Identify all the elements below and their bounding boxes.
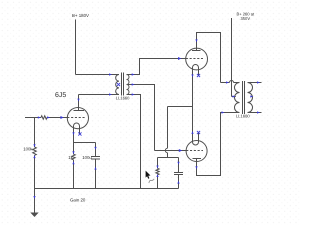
- svg-text:100u: 100u: [82, 155, 92, 160]
- wire bias R top lead: [157, 158, 159, 169]
- pin marker V2 grid arrow: [178, 57, 181, 60]
- pin marker C2 bottom: [177, 181, 179, 184]
- pin marker OPT sec top: [257, 81, 260, 83]
- wire LL1660 sec bottom to ground bus: [127, 95, 141, 189]
- capacitor C2 plates: [174, 173, 183, 175]
- pin marker OPT sec bottom: [257, 111, 260, 113]
- pin marker R4 bottom: [156, 174, 158, 177]
- tube V2 cathode: [193, 65, 199, 76]
- capacitor C2 bottom lead: [178, 175, 180, 189]
- wire V2 anode loop to OPT primary top: [197, 33, 221, 83]
- capacitor C1 bottom lead: [95, 159, 97, 189]
- no-connect X markers (blue): [78, 74, 200, 136]
- tube V2 envelope: [186, 48, 208, 70]
- tube V1 plate: [74, 110, 85, 112]
- no-connect X V2 heater: [197, 74, 200, 77]
- wire 1k top lead: [73, 143, 75, 155]
- transformer T1 core: [122, 73, 124, 96]
- svg-text:Gain 20: Gain 20: [70, 198, 86, 203]
- tube V3 anode lead: [196, 159, 198, 162]
- tube V3 plate: [193, 158, 202, 160]
- wire bias R bottom lead: [157, 175, 159, 189]
- resistor R1 grid stopper: [41, 116, 47, 119]
- wire OPT secondary top: [248, 82, 262, 84]
- wire B+ to OPT center tap: [232, 96, 236, 98]
- svg-text:LL1680: LL1680: [236, 113, 250, 118]
- capacitor C1 100u top lead: [95, 143, 97, 157]
- svg-text:100k: 100k: [23, 147, 33, 152]
- pin marker R3 bottom: [72, 161, 74, 164]
- wire V3 grid: [155, 150, 187, 152]
- svg-text:350V: 350V: [241, 16, 251, 21]
- no-connect X LL1660 pri mid: [117, 83, 120, 86]
- cursor wire-tool adornment: [149, 179, 154, 183]
- transformer T1 LL1660 secondary winding: [127, 75, 130, 95]
- wire hop arc at grid crossing: [165, 148, 167, 152]
- pin marker V1 anode: [77, 99, 79, 102]
- pin marker R3 top: [72, 151, 74, 154]
- wire R1 to V1 grid: [47, 117, 67, 119]
- wire ground drop: [34, 189, 36, 213]
- wire V2 cathode to V3 cathode: [192, 76, 194, 133]
- pin marker OPT center tap: [233, 95, 236, 97]
- pin marker C2 top: [177, 162, 179, 165]
- pin marker R4 top: [156, 166, 158, 169]
- ground bus: [35, 188, 179, 190]
- tube V2 grid (dashed): [186, 58, 203, 60]
- pin marker LL1660 sec bottom: [132, 93, 135, 95]
- tube V1 6J5 envelope: [67, 108, 88, 129]
- transformer T2 LL1680 secondary winding: [248, 83, 253, 113]
- pin marker LL1660 pri bottom: [109, 93, 112, 95]
- pin marker OPT sec mid: [250, 95, 253, 97]
- tube V1 grid (dashed): [67, 117, 84, 119]
- svg-text:B+ 180V: B+ 180V: [72, 13, 89, 18]
- pin marker LL1660 pri top: [109, 73, 112, 75]
- mouse cursor: [146, 171, 151, 179]
- wire OPT primary bottom to V3 anode: [197, 113, 240, 176]
- pin marker R2 bottom: [33, 155, 35, 158]
- tube V3 envelope (flipped): [186, 141, 207, 162]
- tube V3 cathode (flipped): [193, 133, 199, 146]
- wire 100k top lead: [34, 118, 36, 148]
- pin marker OPT pri top: [226, 81, 229, 83]
- tube V3 grid (dashed): [186, 150, 203, 152]
- svg-text:LL1660: LL1660: [116, 96, 130, 101]
- wire B+ right vertical: [231, 18, 233, 97]
- wire cathode branch to bias network (hop over grid wire): [168, 107, 193, 158]
- pin marker LL1660 sec mid: [132, 83, 135, 85]
- pin markers (blue): [33, 39, 260, 199]
- wire hop arc at B+ crossing: [230, 81, 234, 83]
- wire OPT top pin (hop over B+): [221, 82, 240, 84]
- no-connect X V1 heater: [78, 132, 81, 135]
- wire 1k bottom lead: [73, 160, 75, 189]
- pin marker V3 cathode: [191, 131, 193, 134]
- pin marker C1 top: [94, 147, 96, 150]
- wire OPT secondary bottom: [248, 112, 262, 114]
- pin marker LL1660 sec top: [132, 73, 135, 75]
- wire 100k bottom lead: [34, 155, 36, 188]
- transformer T2 LL1680 primary winding: [235, 83, 240, 113]
- wire V1 cathode down: [73, 134, 75, 143]
- wire bias network top rail: [158, 157, 179, 159]
- transformer T1 LL1660 primary winding: [116, 75, 119, 95]
- wire LL1660 sec mid tap down: [127, 85, 155, 151]
- wire B+ left to LL1660 primary top: [76, 74, 120, 76]
- wires and components (dark grey): [25, 18, 262, 213]
- no-connect X V3 heater: [197, 131, 200, 134]
- pin marker C1 bottom: [94, 167, 96, 170]
- svg-text:6J5: 6J5: [55, 92, 66, 99]
- tube V2 plate: [192, 50, 201, 52]
- capacitor C2 bias top lead: [178, 158, 180, 173]
- wire LL1660 sec top to V2 grid: [127, 59, 186, 75]
- wire B+ left vertical drop: [75, 20, 77, 75]
- pin marker R2 top: [33, 144, 35, 147]
- wire cathode rail to 100u: [74, 142, 96, 144]
- pin marker V3 grid arrow: [179, 149, 182, 152]
- wire input left segment: [25, 117, 41, 119]
- pin marker V2 anode: [195, 39, 197, 42]
- tube V1 cathode: [74, 123, 80, 134]
- pin marker R1 right: [47, 116, 50, 118]
- pin marker V1 cathode: [72, 132, 74, 135]
- ground symbol: [30, 213, 38, 218]
- pin marker V2 cathode: [191, 74, 193, 77]
- junction dots: [0, 0, 1, 1]
- resistor R2 100k: [33, 147, 37, 155]
- pin marker ground lead: [33, 196, 35, 199]
- wire V1 anode to LL1660 primary bottom: [79, 94, 120, 96]
- resistor R4 bias: [156, 168, 159, 175]
- pin marker R1 left: [38, 116, 41, 118]
- pin marker V3 anode: [195, 166, 197, 169]
- resistor R3 1k: [72, 154, 75, 160]
- wire V1 anode riser: [78, 95, 80, 111]
- transformer T2 core: [243, 81, 245, 114]
- pin marker OPT pri bottom: [222, 111, 225, 113]
- pin marker V1 grid arrow: [60, 116, 63, 119]
- capacitor C1 plates: [91, 157, 100, 160]
